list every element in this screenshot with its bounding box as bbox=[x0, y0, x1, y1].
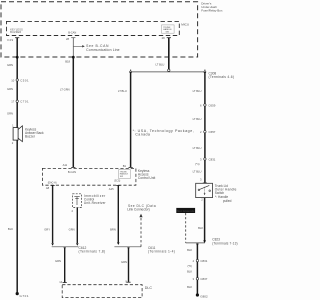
svg-text:Buzzer: Buzzer bbox=[25, 134, 36, 138]
svg-text:C701: C701 bbox=[20, 100, 29, 104]
svg-text:LT BLU: LT BLU bbox=[193, 89, 202, 93]
svg-text:Control Unit: Control Unit bbox=[138, 176, 155, 180]
svg-text:SW: SW bbox=[166, 32, 169, 34]
svg-text:LT BLU: LT BLU bbox=[193, 117, 202, 121]
svg-text:Communication Line: Communication Line bbox=[86, 48, 120, 52]
svg-text:BLK: BLK bbox=[187, 248, 192, 252]
svg-text:pulled: pulled bbox=[223, 199, 232, 203]
svg-text:BRN: BRN bbox=[110, 227, 116, 231]
svg-text:B-CAN: B-CAN bbox=[68, 31, 76, 35]
svg-text:LT GRN: LT GRN bbox=[60, 87, 70, 91]
svg-text:28: 28 bbox=[162, 36, 165, 40]
svg-text:C837: C837 bbox=[200, 277, 207, 281]
svg-text:(SCS): (SCS) bbox=[114, 181, 120, 183]
svg-text:(Terminals 4-6): (Terminals 4-6) bbox=[209, 75, 235, 79]
svg-text:LT BLU: LT BLU bbox=[193, 169, 202, 173]
svg-text:(Terminals 7-13): (Terminals 7-13) bbox=[212, 241, 237, 245]
svg-text:C657: C657 bbox=[209, 130, 216, 134]
svg-text:GRN: GRN bbox=[121, 260, 127, 264]
svg-text:10: 10 bbox=[11, 78, 14, 82]
svg-text:17: 17 bbox=[11, 100, 14, 104]
svg-text:14: 14 bbox=[59, 280, 62, 284]
svg-text:(*6): (*6) bbox=[187, 264, 191, 268]
svg-text:GRN: GRN bbox=[7, 63, 13, 67]
svg-text:A11: A11 bbox=[63, 163, 68, 167]
svg-text:LT BLU: LT BLU bbox=[193, 146, 202, 150]
svg-text:B1: B1 bbox=[123, 164, 127, 168]
svg-text:Unit-Receiver: Unit-Receiver bbox=[84, 201, 107, 205]
svg-text:C501: C501 bbox=[20, 78, 29, 82]
svg-text:BLK: BLK bbox=[198, 226, 203, 230]
svg-text:(*1): (*1) bbox=[195, 162, 199, 166]
svg-text:G701: G701 bbox=[20, 294, 30, 298]
svg-text:BLK: BLK bbox=[8, 227, 13, 231]
svg-text:BLK: BLK bbox=[187, 285, 192, 289]
svg-text:GRN: GRN bbox=[7, 111, 13, 115]
svg-text:LT BLU: LT BLU bbox=[118, 89, 127, 93]
svg-text:LT BLU: LT BLU bbox=[156, 62, 165, 66]
svg-text:28: 28 bbox=[66, 37, 69, 41]
svg-text:MICU: MICU bbox=[181, 22, 189, 26]
svg-text:BLK: BLK bbox=[187, 270, 192, 274]
svg-text:Link Connector): Link Connector) bbox=[127, 208, 150, 212]
svg-text:GRN: GRN bbox=[7, 87, 13, 91]
svg-text:Not Grounds: Not Grounds bbox=[177, 209, 194, 213]
svg-text:GRY: GRY bbox=[44, 228, 50, 232]
svg-text:GRN: GRN bbox=[69, 228, 75, 232]
svg-text:SW: SW bbox=[120, 176, 123, 178]
svg-text:B18: B18 bbox=[65, 59, 70, 63]
svg-text:GRN: GRN bbox=[55, 259, 61, 263]
svg-text:C831: C831 bbox=[209, 157, 216, 161]
svg-text:Fuse/Relay Box: Fuse/Relay Box bbox=[201, 8, 223, 12]
svg-text:(DAC-H): (DAC-H) bbox=[48, 182, 57, 185]
svg-text:A8: A8 bbox=[46, 186, 50, 190]
svg-text:BUZZER: BUZZER bbox=[10, 31, 21, 34]
svg-text:Canada: Canada bbox=[135, 133, 150, 137]
svg-text:C659: C659 bbox=[208, 103, 215, 107]
svg-text:(Terminals 7,8): (Terminals 7,8) bbox=[79, 250, 106, 254]
svg-text:C831: C831 bbox=[200, 259, 207, 263]
svg-text:A25: A25 bbox=[109, 187, 114, 191]
svg-text:F29: F29 bbox=[8, 38, 14, 42]
svg-text:G802: G802 bbox=[200, 294, 208, 298]
svg-text:B-CAN: B-CAN bbox=[68, 170, 76, 174]
svg-text:(Terminals 1-4): (Terminals 1-4) bbox=[148, 249, 175, 253]
svg-text:DLC: DLC bbox=[145, 286, 153, 290]
